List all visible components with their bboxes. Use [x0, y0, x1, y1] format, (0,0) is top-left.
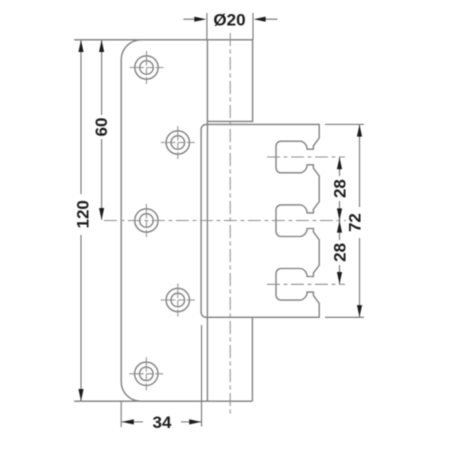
- screw hole 1: [135, 56, 158, 79]
- svg-text:72: 72: [346, 213, 365, 232]
- dim 60: [101, 41, 103, 220]
- svg-text:Ø20: Ø20: [213, 11, 245, 30]
- dim 72: [359, 125, 361, 317]
- svg-text:28: 28: [331, 179, 350, 198]
- svg-text:60: 60: [92, 118, 111, 137]
- door leaf with three slots: [201, 124, 319, 317]
- screw hole 2: [166, 131, 189, 154]
- dimension lines: [81, 13, 364, 427]
- svg-text:28: 28: [331, 243, 350, 262]
- centerlines: [103, 33, 346, 417]
- screw hole 4: [166, 288, 189, 311]
- frame plate outline: [74, 40, 253, 401]
- screw hole 5: [135, 362, 158, 385]
- dim 28 x2: [339, 157, 341, 284]
- dim 120: [80, 41, 82, 401]
- screw hole 3: [135, 209, 158, 232]
- arrowheads: [78, 17, 362, 425]
- svg-text:34: 34: [153, 413, 172, 432]
- svg-text:120: 120: [73, 200, 92, 228]
- dim O20: [183, 18, 277, 20]
- dim 34: [122, 421, 201, 423]
